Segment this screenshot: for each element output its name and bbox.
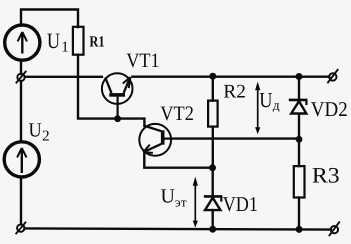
wire VT1 emitter to top-right terminal bbox=[132, 75, 329, 77]
wire VT2 emitter down and right to node bbox=[144, 153, 212, 168]
svg-text:д: д bbox=[273, 98, 280, 113]
wire R2 bottom lead to emitter node bbox=[212, 127, 214, 168]
junction dot VT1 base node bbox=[114, 115, 121, 122]
svg-text:1: 1 bbox=[61, 40, 69, 56]
label U1 bbox=[47, 28, 69, 56]
svg-text:2: 2 bbox=[42, 128, 50, 144]
wire node to VD1 cathode bbox=[211, 168, 213, 196]
junction dot VD2 top (emitter rail) bbox=[296, 73, 303, 80]
junction dot emitter-R2-VD1 node bbox=[209, 164, 216, 171]
svg-text:эт: эт bbox=[175, 195, 187, 210]
zener diode VD1 bbox=[204, 196, 222, 210]
terminal bottom-left bbox=[16, 222, 27, 235]
wire R3 bottom to rail bbox=[298, 198, 300, 230]
svg-text:R3: R3 bbox=[312, 163, 340, 188]
wire left terminal to VT1 collector bbox=[25, 76, 102, 78]
terminal bottom-right bbox=[329, 222, 340, 237]
wire left terminal down to U2 bbox=[20, 81, 22, 141]
svg-text:VD2: VD2 bbox=[311, 97, 348, 121]
resistor R2 bbox=[208, 101, 218, 127]
label Uet bbox=[161, 185, 188, 209]
resistor R1 bbox=[73, 27, 84, 55]
wire VT2 base to VD2 anode node bbox=[171, 137, 299, 139]
voltage source U1 bbox=[5, 25, 40, 60]
transistor VT1 bbox=[102, 73, 133, 118]
svg-text:R2: R2 bbox=[223, 82, 246, 103]
svg-text:VD1: VD1 bbox=[223, 192, 258, 216]
resistor R3 bbox=[294, 166, 305, 197]
junction dot R2 top (emitter rail) bbox=[209, 73, 216, 80]
junction dot VD2-R3-base node bbox=[296, 136, 303, 143]
svg-text:VT1: VT1 bbox=[126, 50, 159, 72]
wire VD1 anode to bottom rail bbox=[211, 210, 213, 229]
terminal top-right bbox=[327, 69, 338, 83]
wire top loop U1 to R1 bbox=[21, 10, 78, 28]
junction dot VD1 bottom rail bbox=[209, 226, 216, 233]
svg-text:U: U bbox=[259, 88, 272, 112]
svg-text:U: U bbox=[161, 185, 176, 207]
zener diode VD2 bbox=[289, 100, 308, 114]
svg-text:VT2: VT2 bbox=[160, 103, 194, 125]
wire R1 bottom to VT2 collector with base node bbox=[78, 55, 144, 126]
svg-text:U: U bbox=[47, 28, 60, 53]
junction dot R3 bottom rail bbox=[296, 226, 303, 233]
voltage source U2 bbox=[4, 142, 39, 177]
wire VD2 anode to node bbox=[298, 114, 300, 139]
label U2 bbox=[29, 119, 50, 144]
wire R2 top lead bbox=[212, 78, 214, 101]
wire bottom rail bbox=[24, 228, 331, 229]
svg-text:U: U bbox=[29, 119, 43, 141]
wire top rail to VD2 cathode bbox=[298, 78, 300, 100]
wire U1 bottom to left terminal bbox=[20, 62, 22, 75]
wire node to R3 top bbox=[298, 139, 300, 166]
terminal left (mid) bbox=[16, 71, 26, 84]
label Ud bbox=[259, 88, 280, 113]
voltage arrow Uet bbox=[193, 177, 198, 228]
wire U2 bottom to bottom-left terminal bbox=[20, 178, 22, 224]
voltage arrow Ud bbox=[255, 82, 260, 135]
svg-text:R1: R1 bbox=[89, 34, 104, 51]
transistor VT2 bbox=[139, 124, 171, 156]
